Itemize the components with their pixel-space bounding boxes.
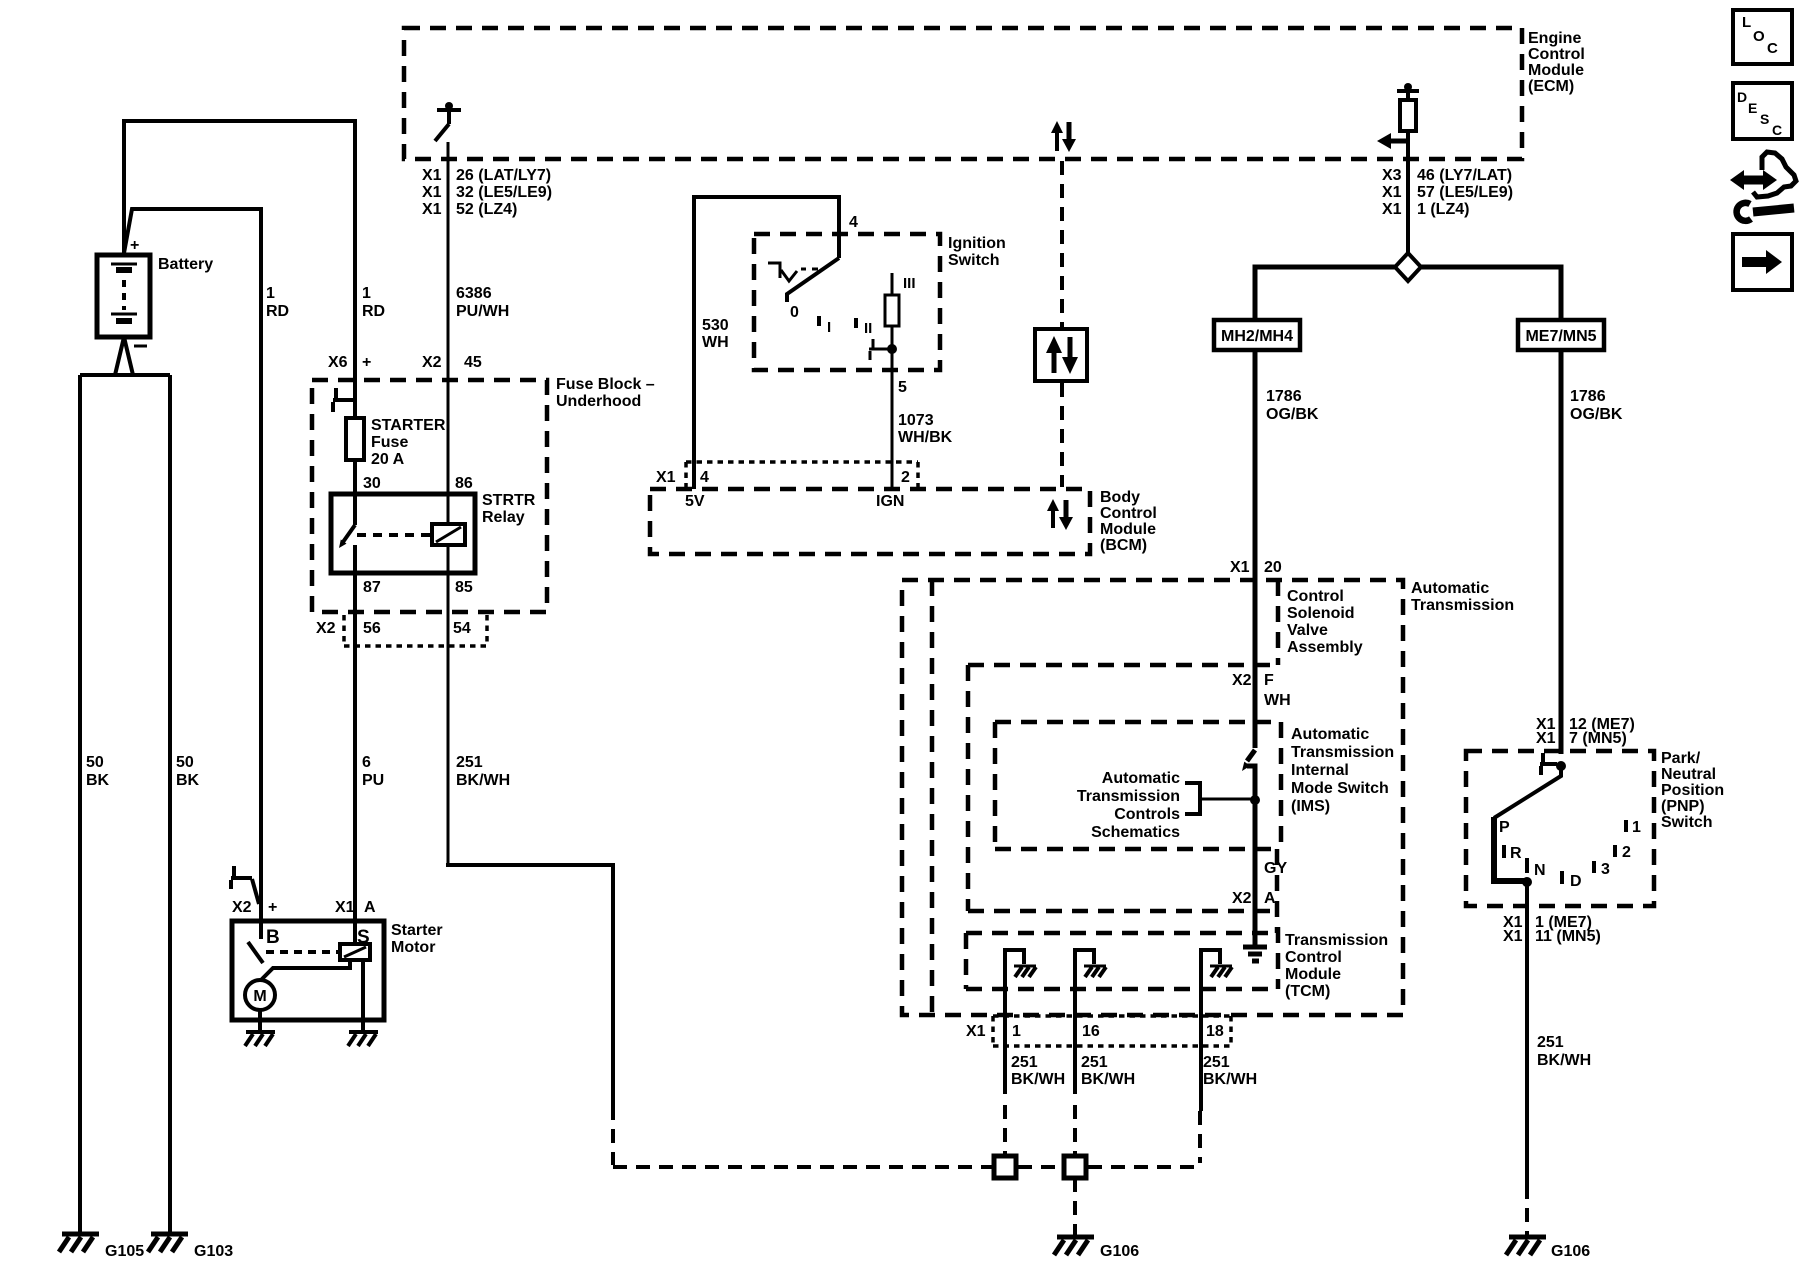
contact II (856, 318, 872, 337)
wire solenoid to case ground (361, 960, 365, 1032)
svg-text:X1: X1 (1230, 559, 1250, 576)
svg-text:X3: X3 (1382, 167, 1402, 184)
svg-text:Transmission: Transmission (1291, 744, 1394, 761)
svg-text:32 (LE5/LE9): 32 (LE5/LE9) (456, 184, 552, 201)
TCM X1 connector dotted box (993, 1016, 1231, 1046)
wire label 50 BK (left) (86, 754, 110, 789)
wire from R1 down to splice (1406, 131, 1410, 254)
svg-text:45: 45 (464, 354, 482, 371)
pin 87 / 85 labels (363, 579, 473, 596)
svg-text:Switch: Switch (948, 252, 1000, 269)
junction dot PNP entry (1556, 761, 1566, 771)
svg-text:S: S (1760, 111, 1769, 127)
wire relay 87 to starter motor S (353, 545, 357, 944)
svg-text:2: 2 (901, 469, 910, 486)
svg-text:III: III (903, 275, 916, 292)
svg-text:IGN: IGN (876, 493, 904, 510)
svg-text:RD: RD (266, 303, 289, 320)
wire label 530 WH (702, 317, 729, 351)
battery B1 (97, 255, 150, 337)
svg-text:Solenoid: Solenoid (1287, 605, 1355, 622)
icon LOC box (1733, 10, 1792, 64)
svg-text:30: 30 (363, 475, 381, 492)
label Control Solenoid Valve Assembly (1287, 588, 1363, 656)
label Engine Control Module (ECM) (1528, 30, 1585, 95)
svg-text:BK/WH: BK/WH (1537, 1052, 1591, 1069)
label Fuse Block Underhood (556, 376, 655, 410)
svg-text:Internal: Internal (1291, 762, 1349, 779)
relay link dashed (357, 533, 430, 537)
contact III with resistor R2 (885, 273, 916, 326)
svg-text:Module: Module (1285, 966, 1341, 983)
svg-text:251: 251 (1011, 1054, 1038, 1071)
svg-text:54: 54 (453, 620, 471, 637)
svg-text:11 (MN5): 11 (MN5) (1535, 928, 1601, 945)
svg-text:II: II (864, 320, 872, 337)
svg-text:X2: X2 (1232, 672, 1252, 689)
BCM continuation arrows (1047, 499, 1073, 530)
label Automatic Transmission Controls Schematics (1077, 770, 1180, 841)
svg-text:MH2/MH4: MH2/MH4 (1221, 328, 1293, 345)
wire labels 251 BK/WH x3 (1011, 1054, 1065, 1088)
IMS container dashed box edges (968, 665, 1277, 933)
label Automatic Transmission (1411, 580, 1514, 614)
svg-text:BK: BK (176, 772, 200, 789)
ground cable 50 BK right (80, 375, 170, 1234)
svg-text:STARTER: STARTER (371, 417, 446, 434)
battery - terminal label (134, 345, 147, 348)
svg-text:X1: X1 (422, 184, 442, 201)
svg-text:PU: PU (362, 772, 384, 789)
node X2 F connector labels (1232, 672, 1274, 689)
svg-text:WH/BK: WH/BK (898, 429, 953, 446)
TCM: Transmission Control Module dashed box (966, 927, 1278, 989)
svg-text:16: 16 (1082, 1023, 1100, 1040)
svg-text:530: 530 (702, 317, 729, 334)
svg-text:6: 6 (362, 754, 371, 771)
ground cable 50 BK left (78, 375, 82, 1234)
contact R (1504, 845, 1522, 862)
wire 6386 PU/WH from ECM switch down to relay coil (447, 142, 450, 524)
svg-text:50: 50 (176, 754, 194, 771)
terminal labels B S (266, 927, 370, 948)
svg-text:50: 50 (86, 754, 104, 771)
svg-text:(TCM): (TCM) (1285, 983, 1330, 1000)
svg-text:1: 1 (1632, 819, 1641, 836)
starter internal wire to motor (261, 960, 350, 980)
switch S1 inside ECM (starter enable contact) (435, 102, 461, 141)
node X1 1/11 connector labels (PNP out) (1503, 914, 1601, 945)
junction dot ignition output (887, 344, 897, 354)
TCM internal ground 3 (1201, 950, 1232, 989)
contact IV notch (768, 263, 818, 281)
svg-text:(BCM): (BCM) (1100, 537, 1147, 554)
svg-text:Control: Control (1528, 46, 1585, 63)
pin 30 / 86 labels (363, 475, 473, 492)
svg-text:1786: 1786 (1266, 388, 1302, 405)
svg-text:251: 251 (1203, 1054, 1230, 1071)
svg-text:BK/WH: BK/WH (456, 772, 510, 789)
svg-text:X1: X1 (335, 899, 355, 916)
svg-text:WH: WH (702, 334, 729, 351)
svg-text:X1: X1 (1536, 730, 1556, 747)
svg-text:WH: WH (1264, 692, 1291, 709)
svg-text:N: N (1534, 862, 1546, 879)
svg-text:Automatic: Automatic (1291, 726, 1369, 743)
svg-text:7 (MN5): 7 (MN5) (1569, 730, 1627, 747)
svg-text:(PNP): (PNP) (1661, 798, 1705, 815)
svg-text:86: 86 (455, 475, 473, 492)
svg-text:PU/WH: PU/WH (456, 303, 509, 320)
svg-text:BK: BK (86, 772, 110, 789)
svg-text:20 A: 20 A (371, 451, 405, 468)
svg-text:+: + (130, 237, 139, 254)
inline connector hook at fuse feed (333, 388, 355, 412)
svg-text:F: F (1264, 672, 1274, 689)
Automatic Transmission outer dashed box (902, 580, 1403, 1015)
svg-text:X1: X1 (1382, 201, 1402, 218)
TCM internal ground 1 (1005, 950, 1036, 989)
inline connector hook at starter B feed (231, 866, 259, 904)
svg-text:A: A (1264, 890, 1276, 907)
junction dot PNP output (1522, 877, 1532, 887)
BCM pin names 5V IGN (685, 493, 904, 510)
svg-text:GY: GY (1264, 860, 1287, 877)
svg-text:RD: RD (362, 303, 385, 320)
ground bus dashed (613, 1165, 992, 1169)
svg-text:Transmission: Transmission (1411, 597, 1514, 614)
Ignition Switch dashed box (754, 234, 940, 370)
node X3/X1 pin labels on ECM output (1382, 167, 1513, 218)
svg-text:B: B (266, 927, 280, 948)
wire label 1 RD (right) (362, 285, 385, 320)
svg-text:+: + (362, 354, 371, 371)
Control Solenoid Valve Assembly dashed box edges (968, 580, 1278, 665)
wire bracket to IMS node (1200, 798, 1255, 801)
contact 3 (1594, 861, 1610, 878)
svg-text:Valve: Valve (1287, 622, 1328, 639)
node X6 + / X2 45 connector labels (328, 354, 482, 371)
Fuse Block - Underhood dashed box (312, 380, 547, 612)
node X1 pin labels on 6386 wire (422, 167, 552, 218)
svg-text:G106: G106 (1551, 1243, 1590, 1260)
svg-text:Transmission: Transmission (1077, 788, 1180, 805)
svg-text:251: 251 (456, 754, 483, 771)
label STARTER Fuse 20 A (371, 417, 446, 468)
svg-text:BK/WH: BK/WH (1203, 1071, 1257, 1088)
svg-text:5: 5 (898, 379, 907, 396)
label Park/Neutral Position (PNP) Switch (1661, 750, 1724, 831)
svg-text:Control: Control (1287, 588, 1344, 605)
node X1 1 16 18 connector labels (966, 1023, 1224, 1040)
ground symbol inside TCM (1243, 947, 1267, 961)
relay contact blade (339, 525, 355, 548)
wire PNP output 251 BK/WH (1525, 882, 1529, 1185)
svg-text:4: 4 (700, 469, 709, 486)
svg-text:Control: Control (1285, 949, 1342, 966)
svg-text:Switch: Switch (1661, 814, 1713, 831)
svg-text:C: C (1767, 40, 1778, 57)
connector ME7/MN5 (1518, 320, 1604, 350)
contact N (1527, 858, 1546, 879)
svg-text:56: 56 (363, 620, 381, 637)
svg-text:26 (LAT/LY7): 26 (LAT/LY7) (456, 167, 551, 184)
svg-text:A: A (364, 899, 376, 916)
wire label 1073 WH/BK (898, 412, 953, 446)
svg-text:20: 20 (1264, 559, 1282, 576)
Automatic Transmission inner wall (930, 580, 935, 1015)
wire splice to ME7/MN5 (1421, 267, 1561, 320)
svg-text:Control: Control (1100, 505, 1157, 522)
BCM X1 connector dotted box (686, 462, 918, 487)
svg-text:85: 85 (455, 579, 473, 596)
wire label 6386 PU/WH (456, 285, 509, 320)
PNP: Park/Neutral Position Switch dashed box (1466, 751, 1654, 906)
wire fuse to relay pin 30 (353, 460, 357, 525)
svg-text:X1: X1 (1382, 184, 1402, 201)
starter solenoid contact blade (248, 942, 263, 963)
svg-text:Neutral: Neutral (1661, 766, 1716, 783)
svg-text:1: 1 (266, 285, 275, 302)
resistor R1 (crank request sensing) inside ECM (1397, 83, 1419, 131)
svg-text:46 (LY7/LAT): 46 (LY7/LAT) (1417, 167, 1512, 184)
wire label 251 BK/WH (456, 754, 510, 789)
wire 530 WH from ignition switch pin 4 to BCM 5V (694, 197, 839, 489)
node X2 56 54 connector labels (316, 620, 471, 637)
label Automatic Transmission Internal Mode Switch (IMS) (1291, 726, 1394, 815)
svg-text:X2: X2 (1232, 890, 1252, 907)
svg-text:4: 4 (849, 214, 858, 231)
connector dotted box X2 (344, 615, 487, 646)
svg-text:Ignition: Ignition (948, 235, 1006, 252)
motor M1 (245, 980, 275, 1010)
svg-text:G103: G103 (194, 1243, 233, 1260)
contact 1 (1626, 819, 1641, 836)
node X2 + / X1 A starter connector labels (232, 899, 376, 916)
node X1 12/7 connector labels (PNP feed) (1536, 716, 1635, 747)
svg-text:251: 251 (1537, 1034, 1564, 1051)
wire 1786 OG/BK left (1253, 350, 1258, 748)
svg-text:1786: 1786 (1570, 388, 1606, 405)
svg-text:ME7/MN5: ME7/MN5 (1525, 328, 1596, 345)
svg-text:251: 251 (1081, 1054, 1108, 1071)
svg-text:87: 87 (363, 579, 381, 596)
svg-text:X6: X6 (328, 354, 348, 371)
wire 1073 WH/BK from ignition III to BCM IGN (891, 326, 894, 489)
dashed serial data wire from ECM to BCM (1060, 161, 1064, 327)
icon car with double arrow and wrench (1730, 152, 1796, 221)
svg-text:Relay: Relay (482, 509, 525, 526)
wire IMS to TCM ground (GY) (1253, 800, 1258, 945)
TCM ground wires through X1 (1003, 989, 1007, 1094)
svg-text:1 (LZ4): 1 (LZ4) (1417, 201, 1469, 218)
svg-text:1: 1 (1012, 1023, 1021, 1040)
svg-text:I: I (827, 319, 831, 336)
svg-text:5V: 5V (685, 493, 705, 510)
label Ignition Switch (948, 235, 1006, 269)
svg-text:3: 3 (1601, 861, 1610, 878)
svg-text:OG/BK: OG/BK (1266, 406, 1319, 423)
label Body Control Module (BCM) (1100, 489, 1157, 554)
svg-text:0: 0 (790, 304, 799, 321)
ground G106 (left) (1054, 1237, 1139, 1260)
ECM: Engine Control Module dashed box (404, 28, 1522, 159)
ignition switch blade (787, 258, 839, 302)
inline connector hook on 1073 wire (869, 339, 890, 360)
starter case ground left (245, 1032, 275, 1046)
svg-text:Assembly: Assembly (1287, 639, 1363, 656)
dashed wire to G106 (1073, 1178, 1077, 1237)
svg-text:1073: 1073 (898, 412, 934, 429)
svg-text:X2: X2 (422, 354, 442, 371)
continuation arrows at ECM bottom edge (1051, 121, 1076, 152)
inline connector hook at PNP entry (1540, 753, 1557, 775)
IMS switch blade (1242, 750, 1255, 800)
svg-text:L: L (1742, 14, 1751, 31)
wire motor to case ground (258, 1010, 262, 1032)
svg-text:2: 2 (1622, 844, 1631, 861)
continuation symbol box with up/down arrows (1035, 329, 1087, 381)
svg-text:Position: Position (1661, 782, 1724, 799)
TCM internal ground 2 (1075, 950, 1106, 989)
icon forward arrow box (1733, 234, 1792, 290)
reference bracket (1185, 783, 1200, 814)
icon DESC box (1733, 83, 1792, 139)
svg-text:X2: X2 (316, 620, 336, 637)
contact 2 (1615, 844, 1631, 861)
relay K1 STRTR Relay box (331, 494, 475, 573)
svg-text:O: O (1753, 28, 1765, 45)
svg-text:BK/WH: BK/WH (1081, 1071, 1135, 1088)
wire splice to MH2/MH4 (1255, 267, 1395, 320)
IMS: Automatic Transmission Internal Mode Switch dashed box (995, 722, 1281, 849)
svg-text:X1: X1 (656, 469, 676, 486)
svg-text:X1: X1 (422, 201, 442, 218)
svg-text:Underhood: Underhood (556, 393, 641, 410)
label STRTR Relay (482, 492, 536, 526)
svg-text:G105: G105 (105, 1243, 144, 1260)
svg-text:Automatic: Automatic (1411, 580, 1489, 597)
svg-text:Starter: Starter (391, 922, 443, 939)
node X1 4 2 connector labels (656, 469, 910, 486)
starter solenoid coil (340, 944, 370, 960)
svg-text:STRTR: STRTR (482, 492, 536, 509)
node X1 20 connector labels (1230, 559, 1282, 576)
starter link dashed (266, 950, 338, 954)
svg-text:R: R (1510, 845, 1522, 862)
svg-text:Fuse: Fuse (371, 434, 408, 451)
hidden ground wires dashed (1003, 1105, 1007, 1154)
svg-text:D: D (1737, 89, 1747, 105)
svg-text:57 (LE5/LE9): 57 (LE5/LE9) (1417, 184, 1513, 201)
PNP switch blade to P contact (1494, 766, 1561, 818)
relay coil (86-85) (432, 524, 465, 545)
wire label 50 BK (right) (176, 754, 200, 789)
svg-text:52 (LZ4): 52 (LZ4) (456, 201, 517, 218)
fuse F1 STARTER 20 A (346, 418, 364, 460)
PNP selected path P to output (thick) (1494, 817, 1525, 881)
ground G103 (148, 1234, 233, 1260)
wire label 1 RD (left) (266, 285, 289, 320)
svg-text:G106: G106 (1100, 1243, 1139, 1260)
contact I (819, 316, 831, 336)
wire 251 BK/WH run to ground bus (446, 865, 613, 1106)
splice block 2 (1064, 1156, 1086, 1178)
svg-text:1: 1 (362, 285, 371, 302)
svg-text:X1: X1 (966, 1023, 986, 1040)
BCM: Body Control Module dashed box (650, 489, 1090, 554)
svg-text:Body: Body (1100, 489, 1140, 506)
svg-text:E: E (1748, 100, 1757, 116)
svg-text:D: D (1570, 873, 1582, 890)
svg-text:18: 18 (1206, 1023, 1224, 1040)
svg-text:(IMS): (IMS) (1291, 798, 1330, 815)
svg-text:C: C (1772, 122, 1782, 138)
battery positive cable to starter motor B (124, 209, 261, 939)
starter case ground right (348, 1032, 378, 1046)
ground G105 (59, 1234, 144, 1260)
svg-text:Module: Module (1100, 521, 1156, 538)
svg-text:X1: X1 (1503, 928, 1523, 945)
svg-text:Automatic: Automatic (1102, 770, 1180, 787)
battery negative fan-out to ground cables (115, 337, 133, 375)
junction dot IMS (1250, 795, 1260, 805)
svg-text:X1: X1 (422, 167, 442, 184)
wire label 251 BK/WH (right) (1537, 1034, 1591, 1069)
svg-text:BK/WH: BK/WH (1011, 1071, 1065, 1088)
node X2 A connector labels (1232, 890, 1276, 907)
starter motor box (232, 921, 384, 1020)
svg-text:OG/BK: OG/BK (1570, 406, 1623, 423)
svg-text:+: + (268, 899, 277, 916)
connector MH2/MH4 (1214, 320, 1300, 350)
svg-text:Transmission: Transmission (1285, 932, 1388, 949)
splice block 1 (994, 1156, 1016, 1178)
svg-text:Motor: Motor (391, 939, 435, 956)
dashed wire to G106 right (1525, 1185, 1529, 1237)
svg-text:Fuse Block –: Fuse Block – (556, 376, 655, 393)
svg-text:Module: Module (1528, 62, 1584, 79)
svg-text:Park/: Park/ (1661, 750, 1701, 767)
svg-text:Controls: Controls (1114, 806, 1180, 823)
ground G106 (right) (1506, 1237, 1590, 1260)
svg-text:Engine: Engine (1528, 30, 1581, 47)
splice diamond S100 (1395, 253, 1421, 281)
wire 1786 OG/BK right (1559, 350, 1564, 754)
svg-text:P: P (1499, 819, 1510, 836)
svg-text:X2: X2 (232, 899, 252, 916)
wire relay 85 down (251 BK/WH) (447, 545, 450, 863)
svg-text:(ECM): (ECM) (1528, 78, 1574, 95)
svg-text:6386: 6386 (456, 285, 492, 302)
contact D (1562, 871, 1582, 890)
svg-text:M: M (253, 988, 266, 1005)
svg-text:Schematics: Schematics (1091, 824, 1180, 841)
wire label 6 PU (362, 754, 384, 789)
battery positive cable loop to fuse block (124, 121, 355, 418)
label Transmission Control Module (TCM) (1285, 932, 1388, 1000)
svg-text:Mode Switch: Mode Switch (1291, 780, 1389, 797)
arrow pointer left inside ECM (1377, 133, 1408, 149)
svg-text:Battery: Battery (158, 256, 213, 273)
label Starter Motor (391, 922, 443, 956)
